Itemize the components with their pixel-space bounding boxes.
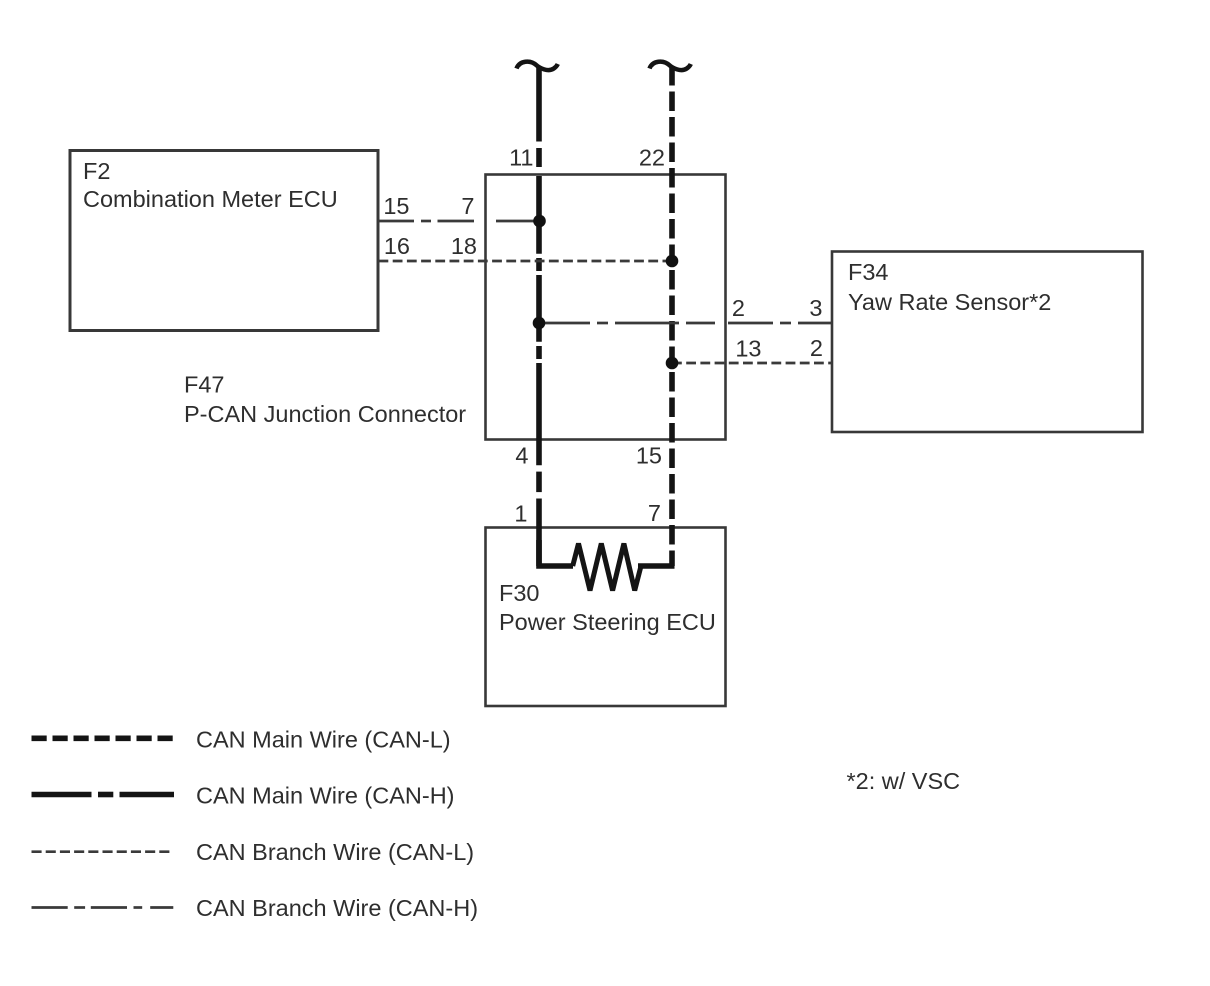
- wire branch CAN-L F2 pin16 to F47 pin18: [379, 260, 673, 263]
- wire CAN-H turn into F30 pin 1: [539, 540, 573, 566]
- svg-text:22: 22: [639, 145, 665, 171]
- wire break symbol (CAN-L top): [650, 62, 691, 70]
- svg-text:F34: F34: [848, 259, 889, 285]
- svg-text:Power Steering ECU: Power Steering ECU: [499, 609, 716, 635]
- wire branch CAN-H F2 pin15 to F47 pin7: [379, 220, 540, 223]
- wire resistor to CAN-L at F30 pin 7: [638, 563, 675, 569]
- svg-text:2: 2: [810, 335, 823, 361]
- svg-text:2: 2: [732, 295, 745, 321]
- svg-text:3: 3: [809, 295, 822, 321]
- ECU box F2: [70, 151, 378, 331]
- sensor box F34: [832, 252, 1143, 433]
- svg-text:1: 1: [514, 501, 527, 527]
- legend sample CAN Branch Wire CAN-H: [32, 906, 174, 909]
- svg-text:7: 7: [648, 500, 661, 526]
- wire break symbol (CAN-H top): [517, 62, 558, 70]
- svg-text:15: 15: [383, 193, 409, 219]
- wire branch CAN-H F47 pin2 to F34 pin3: [545, 322, 832, 325]
- wire CAN-L main vertical (dashed): [669, 66, 675, 566]
- svg-text:*2: w/ VSC: *2: w/ VSC: [847, 768, 961, 794]
- svg-text:F47: F47: [184, 372, 225, 398]
- node F47 pin7 junction dot: [533, 215, 546, 228]
- svg-text:CAN Branch Wire (CAN-H): CAN Branch Wire (CAN-H): [196, 895, 478, 921]
- legend sample CAN Branch Wire CAN-L: [32, 850, 171, 853]
- svg-text:P-CAN Junction Connector: P-CAN Junction Connector: [184, 401, 466, 427]
- legend sample CAN Main Wire CAN-H: [32, 792, 175, 798]
- svg-text:15: 15: [636, 443, 662, 469]
- node F47 pin2 junction dot: [533, 317, 546, 330]
- svg-text:16: 16: [384, 233, 410, 259]
- svg-text:Combination Meter ECU: Combination Meter ECU: [83, 186, 338, 212]
- svg-text:F2: F2: [83, 158, 110, 184]
- wire CAN-H main vertical (dash-dot segments): [536, 66, 542, 566]
- wire branch CAN-L F47 pin13 to F34 pin2: [672, 362, 832, 365]
- svg-text:CAN Main Wire (CAN-L): CAN Main Wire (CAN-L): [196, 727, 451, 753]
- svg-text:18: 18: [451, 233, 477, 259]
- svg-text:CAN Main Wire (CAN-H): CAN Main Wire (CAN-H): [196, 783, 455, 809]
- svg-text:11: 11: [509, 145, 533, 171]
- resistor terminating: [573, 544, 641, 591]
- ECU box F30: [486, 528, 726, 707]
- node F47 pin13 junction dot: [666, 357, 679, 370]
- svg-text:4: 4: [515, 443, 528, 469]
- svg-text:Yaw Rate Sensor*2: Yaw Rate Sensor*2: [848, 289, 1051, 315]
- node F47 pin18 junction dot: [666, 255, 679, 268]
- svg-text:7: 7: [461, 193, 474, 219]
- svg-text:F30: F30: [499, 580, 540, 606]
- svg-text:13: 13: [735, 336, 761, 362]
- svg-text:CAN Branch Wire (CAN-L): CAN Branch Wire (CAN-L): [196, 839, 474, 865]
- legend sample CAN Main Wire CAN-L: [32, 735, 175, 741]
- junction connector box F47: [486, 175, 726, 440]
